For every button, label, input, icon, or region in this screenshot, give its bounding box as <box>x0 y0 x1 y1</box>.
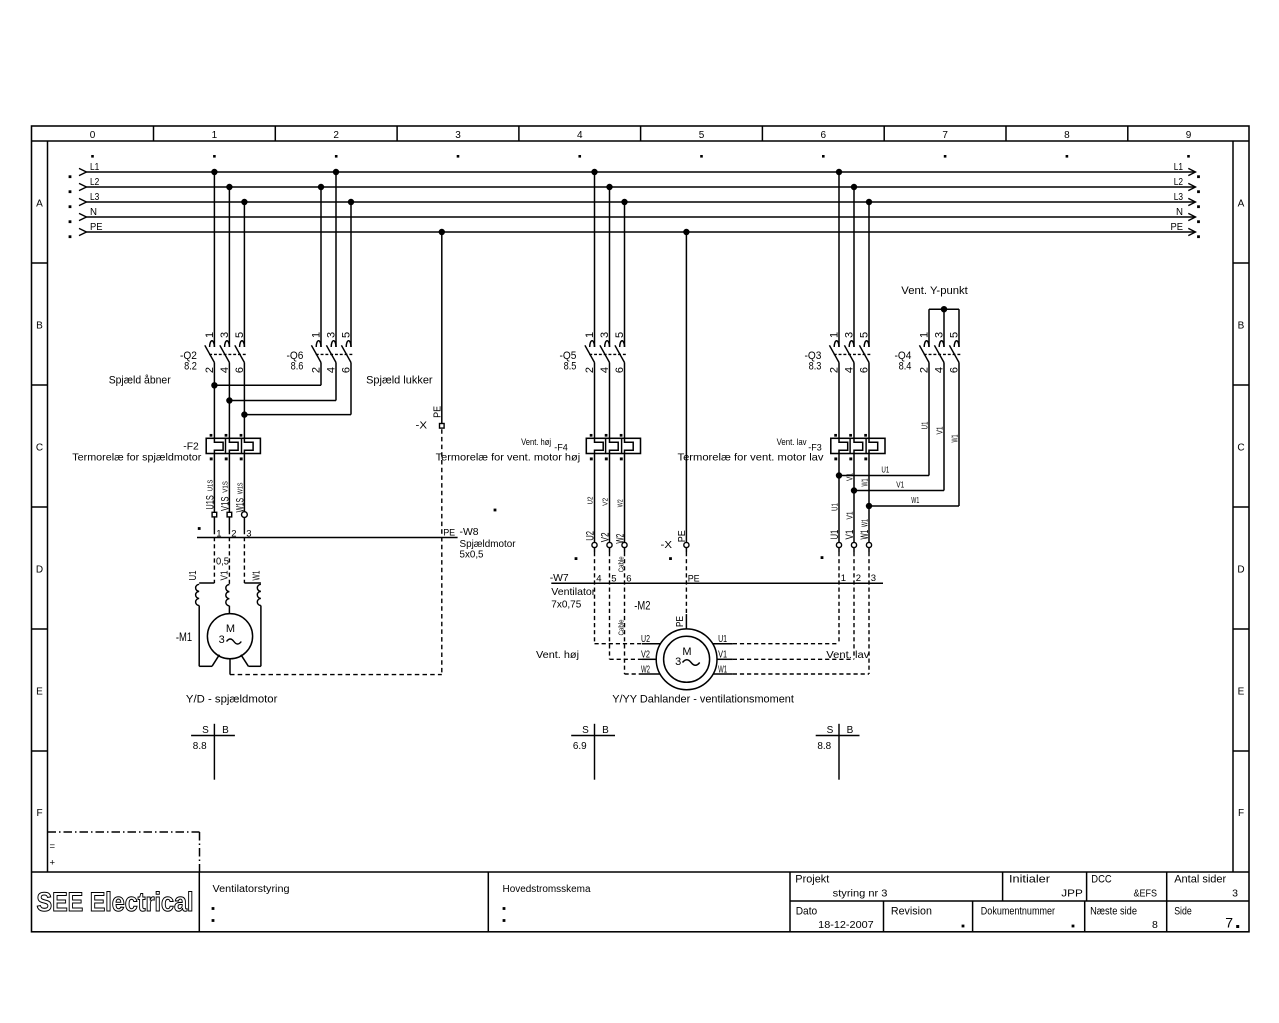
svg-text:0: 0 <box>90 130 96 141</box>
svg-text:-W8: -W8 <box>460 526 479 538</box>
svg-text:Y/D - spjældmotor: Y/D - spjældmotor <box>186 693 278 705</box>
svg-text:F: F <box>1238 808 1244 819</box>
svg-text:3: 3 <box>933 332 945 338</box>
svg-text:styring nr 3: styring nr 3 <box>833 887 888 899</box>
svg-text:6.9: 6.9 <box>573 741 587 752</box>
svg-text:1: 1 <box>584 332 596 338</box>
svg-text:4: 4 <box>596 574 601 585</box>
svg-text:W1: W1 <box>859 530 871 540</box>
svg-text:PE: PE <box>675 616 686 627</box>
svg-text:7: 7 <box>942 130 948 141</box>
svg-text:A: A <box>36 198 43 209</box>
svg-text:5x0,5: 5x0,5 <box>460 548 484 560</box>
svg-text:5: 5 <box>614 332 626 338</box>
svg-text:V1: V1 <box>844 511 854 519</box>
svg-text:18-12-2007: 18-12-2007 <box>818 919 874 931</box>
svg-text:W2: W2 <box>617 499 624 507</box>
svg-text:=: = <box>50 841 56 852</box>
svg-text:V1S: V1S <box>219 497 231 511</box>
svg-text:W1: W1 <box>250 570 262 580</box>
svg-text:L1: L1 <box>90 162 100 173</box>
svg-text:W1: W1 <box>949 434 959 442</box>
svg-text:U1S: U1S <box>204 495 216 509</box>
svg-text:0,5: 0,5 <box>216 555 229 567</box>
svg-text:Initialer: Initialer <box>1009 873 1050 885</box>
svg-text:N: N <box>1176 207 1183 218</box>
svg-text:1: 1 <box>828 332 840 338</box>
svg-text:V1: V1 <box>844 473 854 481</box>
svg-text:+: + <box>50 858 56 869</box>
svg-text:U2: U2 <box>641 633 650 645</box>
svg-text:Dato: Dato <box>796 905 818 917</box>
svg-text:U2: U2 <box>587 496 594 504</box>
svg-text:8.8: 8.8 <box>193 741 207 752</box>
svg-text:Ventilatorstyring: Ventilatorstyring <box>213 884 290 895</box>
svg-text:V1: V1 <box>718 649 727 661</box>
svg-text:B: B <box>36 320 43 331</box>
svg-text:Side: Side <box>1174 905 1192 917</box>
svg-text:Spjæld åbner: Spjæld åbner <box>109 375 171 387</box>
svg-text:3: 3 <box>599 332 611 338</box>
svg-text:3: 3 <box>219 634 225 646</box>
svg-text:U1: U1 <box>718 633 727 645</box>
svg-text:V2: V2 <box>600 532 612 542</box>
svg-text:W1: W1 <box>911 495 919 505</box>
svg-text:L3: L3 <box>90 192 100 203</box>
svg-text:8: 8 <box>1064 130 1070 141</box>
svg-text:Vent. Y-punkt: Vent. Y-punkt <box>901 285 968 297</box>
svg-text:5: 5 <box>340 332 352 338</box>
svg-text:V1: V1 <box>896 480 904 490</box>
svg-text:1: 1 <box>204 332 216 338</box>
svg-text:3: 3 <box>843 332 855 338</box>
svg-text:E: E <box>36 686 43 697</box>
svg-text:-X: -X <box>416 420 428 432</box>
svg-text:V2: V2 <box>641 649 650 661</box>
svg-text:Hovedstromsskema: Hovedstromsskema <box>503 884 591 895</box>
svg-text:U1: U1 <box>829 530 841 540</box>
svg-text:8.5: 8.5 <box>564 361 577 373</box>
svg-text:W1S: W1S <box>234 498 246 512</box>
svg-text:S: S <box>582 725 589 736</box>
svg-text:1: 1 <box>918 332 930 338</box>
svg-text:Projekt: Projekt <box>795 873 829 885</box>
svg-text:Vent. lav: Vent. lav <box>826 649 870 661</box>
svg-text:Y/YY Dahlander - ventilationsm: Y/YY Dahlander - ventilationsmoment <box>612 693 794 705</box>
svg-text:3: 3 <box>325 332 337 338</box>
svg-text:9: 9 <box>1186 130 1192 141</box>
svg-text:1: 1 <box>212 130 218 141</box>
svg-text:-M1: -M1 <box>176 630 192 644</box>
svg-text:3: 3 <box>455 130 461 141</box>
svg-text:Vent. lav: Vent. lav <box>777 437 807 448</box>
svg-text:5: 5 <box>699 130 705 141</box>
svg-text:V1: V1 <box>934 426 944 434</box>
svg-text:V1S: V1S <box>222 481 229 493</box>
svg-text:B: B <box>1238 320 1245 331</box>
svg-text:L2: L2 <box>90 177 100 188</box>
svg-text:5: 5 <box>858 332 870 338</box>
svg-text:V1: V1 <box>844 530 856 540</box>
svg-text:PE: PE <box>1171 222 1184 233</box>
svg-text:1: 1 <box>216 528 221 539</box>
svg-text:F: F <box>36 808 42 819</box>
svg-text:C: C <box>36 442 43 453</box>
svg-text:V2: V2 <box>602 498 609 506</box>
svg-text:8.3: 8.3 <box>809 361 822 373</box>
svg-text:JPP: JPP <box>1061 887 1083 899</box>
svg-text:Cable: Cable <box>618 619 625 635</box>
svg-text:5: 5 <box>234 332 246 338</box>
svg-text:M: M <box>226 623 235 635</box>
svg-text:5: 5 <box>948 332 960 338</box>
svg-text:5: 5 <box>611 574 616 585</box>
svg-text:W2: W2 <box>641 663 650 675</box>
svg-text:L2: L2 <box>1174 177 1184 188</box>
svg-text:PE: PE <box>688 574 700 585</box>
svg-text:S: S <box>827 725 834 736</box>
svg-text:C: C <box>1237 442 1244 453</box>
svg-text:PE: PE <box>432 406 443 418</box>
svg-text:A: A <box>1238 198 1245 209</box>
svg-text:Revision: Revision <box>891 905 932 917</box>
svg-text:8.4: 8.4 <box>899 361 912 373</box>
svg-text:B: B <box>602 725 609 736</box>
svg-text:8.6: 8.6 <box>291 361 304 373</box>
svg-text:-X: -X <box>661 539 673 551</box>
svg-text:Vent. høj: Vent. høj <box>536 649 579 661</box>
svg-text:L1: L1 <box>1174 162 1184 173</box>
svg-text:1: 1 <box>310 332 322 338</box>
svg-text:W1S: W1S <box>237 482 244 494</box>
svg-text:Termorelæ for spjældmotor: Termorelæ for spjældmotor <box>72 452 202 464</box>
svg-text:V1: V1 <box>219 570 231 580</box>
svg-text:PE: PE <box>90 222 103 233</box>
svg-text:D: D <box>36 564 43 575</box>
svg-text:7x0,75: 7x0,75 <box>551 599 581 611</box>
svg-text:3: 3 <box>871 573 876 584</box>
svg-text:Antal sider: Antal sider <box>1174 873 1226 885</box>
svg-text:W1: W1 <box>718 663 727 675</box>
svg-text:8.2: 8.2 <box>184 361 197 373</box>
svg-text:U1: U1 <box>919 421 929 429</box>
svg-text:U1: U1 <box>187 570 199 580</box>
svg-text:W1: W1 <box>859 478 869 486</box>
svg-text:1: 1 <box>841 573 846 584</box>
svg-text:3: 3 <box>675 656 681 668</box>
svg-text:SEE Electrical: SEE Electrical <box>37 887 194 917</box>
svg-text:2: 2 <box>856 573 861 584</box>
svg-text:&EFS: &EFS <box>1134 887 1158 899</box>
svg-text:Næste side: Næste side <box>1090 905 1137 917</box>
svg-text:7: 7 <box>1225 915 1233 931</box>
svg-text:3: 3 <box>1232 887 1238 899</box>
svg-text:6: 6 <box>821 130 827 141</box>
svg-text:Termorelæ for vent. motor høj: Termorelæ for vent. motor høj <box>436 452 581 464</box>
svg-text:E: E <box>1238 686 1245 697</box>
svg-text:Ventilator: Ventilator <box>551 586 596 598</box>
svg-text:Cable: Cable <box>618 556 625 572</box>
svg-text:-W7: -W7 <box>550 572 569 584</box>
svg-text:-M2: -M2 <box>634 599 650 613</box>
svg-text:N: N <box>90 207 97 218</box>
svg-text:U1: U1 <box>881 465 889 475</box>
svg-text:8.8: 8.8 <box>817 741 831 752</box>
svg-text:U2: U2 <box>585 531 597 541</box>
svg-text:Vent. høj: Vent. høj <box>521 437 551 448</box>
svg-text:PE: PE <box>443 528 455 539</box>
svg-text:Dokumentnummer: Dokumentnummer <box>981 905 1055 917</box>
svg-text:B: B <box>222 725 229 736</box>
svg-text:W1: W1 <box>859 519 869 527</box>
svg-text:D: D <box>1237 564 1244 575</box>
svg-text:B: B <box>847 725 854 736</box>
svg-text:3: 3 <box>219 332 231 338</box>
svg-text:8: 8 <box>1152 919 1158 931</box>
svg-text:Termorelæ for vent. motor lav: Termorelæ for vent. motor lav <box>678 452 825 464</box>
svg-text:PE: PE <box>677 530 688 542</box>
svg-text:L3: L3 <box>1174 192 1184 203</box>
svg-text:Spjæld lukker: Spjæld lukker <box>366 375 433 387</box>
svg-text:4: 4 <box>577 130 583 141</box>
svg-text:2: 2 <box>333 130 339 141</box>
svg-text:U1: U1 <box>829 503 839 511</box>
svg-text:S: S <box>202 725 209 736</box>
svg-text:DCC: DCC <box>1091 873 1111 885</box>
svg-text:M: M <box>682 646 691 658</box>
svg-text:3: 3 <box>246 528 251 539</box>
svg-text:6: 6 <box>626 574 631 585</box>
svg-text:2: 2 <box>231 528 236 539</box>
svg-text:U1S: U1S <box>207 479 214 491</box>
